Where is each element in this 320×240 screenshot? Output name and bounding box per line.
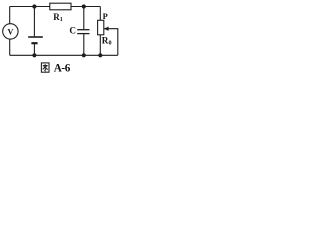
junction top of battery branch xyxy=(32,4,36,8)
resistor R1 xyxy=(50,3,71,10)
junction bottom of capacitor branch xyxy=(82,53,86,57)
svg-text:R0: R0 xyxy=(102,35,112,46)
battery E short plate xyxy=(31,42,37,44)
wire top rail left segment xyxy=(10,6,50,8)
junction top of capacitor branch xyxy=(82,4,86,8)
battery E long plate xyxy=(28,36,43,38)
capacitor C top plate xyxy=(77,29,89,31)
wiper arrowhead xyxy=(104,27,109,31)
svg-text:V: V xyxy=(7,27,13,36)
wire bottom rail xyxy=(10,54,118,56)
wire potentiometer branch upper xyxy=(99,7,101,21)
wire battery branch upper xyxy=(33,7,35,37)
wire capacitor branch lower xyxy=(83,34,85,55)
svg-text:R1: R1 xyxy=(53,12,63,23)
voltmeter V xyxy=(3,24,18,39)
wire left rail lower xyxy=(9,39,11,55)
wire battery branch lower xyxy=(33,44,35,56)
svg-text:C: C xyxy=(69,25,76,35)
caption character 图 (drawn) xyxy=(41,63,49,72)
junction bottom of battery branch xyxy=(32,53,36,57)
svg-text:P: P xyxy=(103,12,108,21)
wire potentiometer branch lower xyxy=(99,35,101,56)
wire left rail upper xyxy=(9,7,11,24)
svg-text:A-6: A-6 xyxy=(54,62,71,74)
wire top rail right segment xyxy=(71,6,100,8)
potentiometer R0 body xyxy=(98,20,104,35)
wire capacitor branch upper xyxy=(83,7,85,30)
junction bottom of potentiometer branch xyxy=(98,53,102,57)
wire wiper horizontal and right rail xyxy=(104,29,118,56)
capacitor C bottom plate xyxy=(77,33,89,35)
